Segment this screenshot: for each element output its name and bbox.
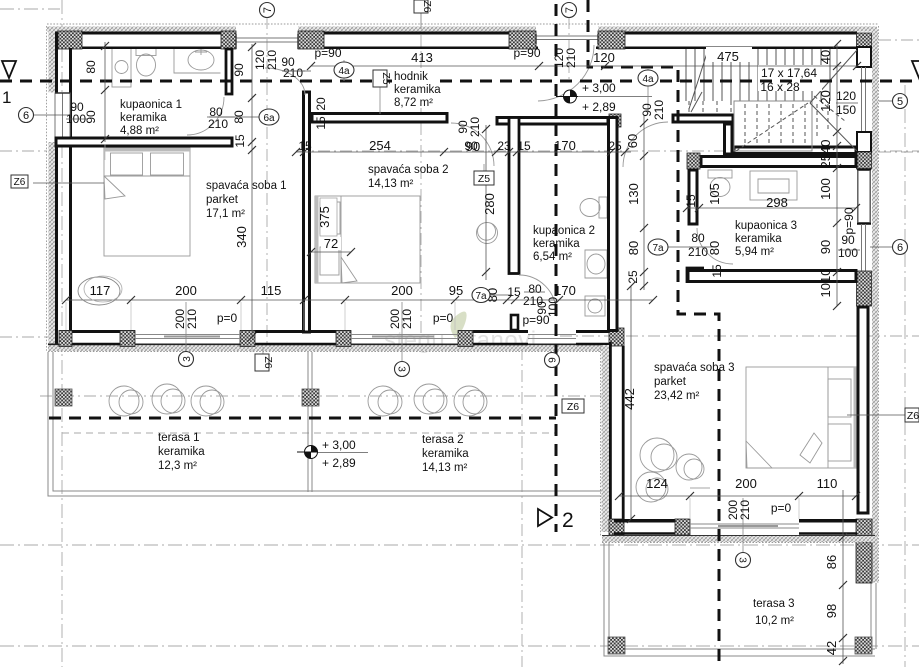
svg-text:3: 3 [182, 356, 193, 362]
hodnik/sp3 corridor wall (above kup3) [673, 115, 733, 122]
svg-text:6: 6 [23, 110, 29, 122]
terrace shrubs [109, 384, 487, 416]
svg-text:210: 210 [738, 500, 752, 520]
top wall outer black face [49, 32, 236, 35]
svg-text:15: 15 [314, 116, 328, 130]
inner faces [60, 330, 135, 333]
fixtures kupaonica 1: washer [112, 49, 131, 88]
svg-text:475: 475 [717, 49, 739, 64]
kup2 top dim line y152 [296, 151, 631, 153]
svg-text:5,94 m²: 5,94 m² [735, 246, 774, 258]
kup3 bottom wall [688, 271, 856, 282]
svg-text:kupaonica 3: kupaonica 3 [735, 220, 797, 232]
svg-text:hodnik: hodnik [394, 71, 428, 83]
svg-text:25: 25 [626, 270, 640, 284]
svg-text:keramika: keramika [422, 448, 469, 460]
kup2 left wall [509, 118, 519, 274]
witness lines [66, 144, 799, 519]
kup2 door to terrace p=90 [528, 335, 576, 339]
svg-text:80: 80 [691, 231, 705, 245]
entry door 120 opening [536, 36, 598, 40]
terasa3 chain x843 [842, 490, 844, 664]
svg-text:17,1 m²: 17,1 m² [206, 208, 245, 220]
svg-text:115: 115 [261, 283, 282, 298]
glass door sp1 (p=0 200) [135, 335, 240, 339]
svg-text:20: 20 [314, 97, 328, 111]
svg-text:6a: 6a [263, 113, 275, 124]
BOTTOM WALL (main house) [48, 328, 624, 352]
svg-text:150: 150 [836, 103, 856, 117]
glass door sp2 (p=0 200) [351, 335, 458, 339]
kup2 top wall [497, 118, 608, 125]
svg-text:90: 90 [466, 139, 480, 154]
fixtures kupaonica 2 [580, 197, 607, 316]
sp2 to kup2 door arc [519, 275, 556, 312]
svg-text:+ 3,00: + 3,00 [322, 438, 356, 452]
sp3 chain x631 [630, 286, 632, 519]
hodnik to sp3 door arc (4a) [623, 122, 668, 167]
DIMENSION TEXTS horizontal [66, 46, 858, 515]
svg-text:90: 90 [232, 63, 246, 77]
hodnik cabinet [0, 0, 1, 1]
left wall window 90/100 [55, 93, 70, 142]
MARKERS: section triangles [2, 61, 919, 532]
svg-text:4a: 4a [338, 66, 350, 77]
hodnik bottom wall [312, 114, 447, 123]
svg-text:413: 413 [411, 50, 433, 65]
watermark [384, 311, 537, 354]
DOOR ARCS [187, 45, 733, 312]
hodnik to sp2 door arc [451, 123, 494, 166]
svg-text:15: 15 [233, 134, 247, 148]
svg-text:200: 200 [391, 283, 413, 298]
fixtures kupaonica 1: sink+counter [174, 48, 221, 73]
long solid segment [858, 307, 868, 513]
svg-text:3: 3 [737, 557, 748, 563]
svg-text:98: 98 [824, 604, 839, 618]
svg-text:210: 210 [265, 50, 279, 70]
piers [59, 331, 72, 347]
main bottom dim line [66, 299, 653, 301]
door p=90 in right wall [858, 171, 870, 222]
wall stub at entry (kup1 door jamb) [226, 49, 232, 94]
furniture: bed 2 (spavaca soba 2) [315, 196, 420, 283]
svg-text:terasa 1: terasa 1 [158, 432, 200, 444]
svg-text:p=0: p=0 [217, 311, 238, 325]
kup3 left wall [689, 170, 697, 224]
svg-text:95: 95 [449, 283, 463, 298]
svg-text:spavaća soba 2: spavaća soba 2 [368, 164, 449, 176]
leader lines [33, 114, 70, 116]
glass door sp3 (p=0 200) [690, 524, 799, 528]
kup2 left wall stub at bottom [511, 315, 518, 330]
svg-text:130: 130 [626, 183, 641, 205]
svg-text:80: 80 [84, 60, 98, 74]
svg-text:+ 2,89: + 2,89 [582, 100, 616, 114]
svg-text:210: 210 [208, 117, 228, 131]
svg-text:23,42 m²: 23,42 m² [654, 390, 700, 402]
svg-text:spavaća soba 1: spavaća soba 1 [206, 180, 287, 192]
RIGHT WALL [856, 26, 879, 583]
window axis leader lines [186, 302, 743, 553]
svg-text:1010: 1010 [818, 269, 833, 298]
svg-text:3: 3 [396, 366, 407, 372]
svg-text:124: 124 [646, 476, 668, 491]
wall below stairs [734, 147, 856, 154]
svg-text:210: 210 [652, 100, 666, 120]
svg-text:80: 80 [626, 241, 641, 255]
kup3 top wall [701, 157, 856, 167]
svg-text:6: 6 [546, 357, 557, 363]
svg-text:105: 105 [707, 183, 722, 205]
svg-text:16 x 28: 16 x 28 [760, 80, 800, 94]
SP3 LEFT WALL [601, 342, 625, 537]
svg-text:p=90: p=90 [314, 46, 341, 60]
right chain x837 [836, 44, 838, 306]
svg-text:kupaonica 2: kupaonica 2 [533, 225, 595, 237]
furniture: bed 1 (spavaca soba 1) [104, 148, 190, 256]
solid/cored segments [857, 33, 872, 47]
svg-text:23: 23 [497, 139, 511, 153]
kup3 door stub corner [687, 268, 704, 283]
svg-text:210: 210 [283, 66, 303, 80]
svg-text:15: 15 [507, 285, 521, 299]
svg-text:40: 40 [818, 50, 833, 64]
svg-text:10,2 m²: 10,2 m² [755, 615, 794, 627]
svg-text:15: 15 [517, 139, 531, 153]
svg-text:80: 80 [707, 241, 722, 255]
svg-text:210: 210 [400, 309, 414, 329]
svg-text:90: 90 [84, 110, 98, 124]
svg-text:90: 90 [818, 240, 833, 254]
svg-text:4,88 m²: 4,88 m² [120, 125, 159, 137]
svg-text:parket: parket [206, 194, 239, 206]
kup1 vertical chain x105 [104, 42, 106, 142]
fixtures kupaonica 3 [708, 170, 797, 200]
kup2 right chain x644 [643, 116, 645, 290]
ROOM LABELS [120, 68, 797, 627]
terrace 1/2 divider [308, 352, 312, 492]
wall kup1 bottom [56, 138, 232, 146]
svg-text:7a: 7a [652, 243, 664, 254]
furniture: bed 3 (spavaca soba 3) [746, 367, 857, 468]
svg-text:442: 442 [622, 388, 637, 410]
svg-text:p=90: p=90 [513, 46, 540, 60]
svg-text:280: 280 [482, 193, 497, 215]
svg-text:keramika: keramika [533, 238, 580, 250]
svg-text:120: 120 [818, 90, 833, 112]
entry vertical chain x252 [251, 44, 253, 338]
terrace pillars [55, 389, 872, 654]
svg-text:17 x 17,64: 17 x 17,64 [761, 66, 817, 80]
entry window arc [265, 68, 305, 95]
svg-text:p=90: p=90 [842, 207, 856, 234]
svg-text:200: 200 [175, 283, 197, 298]
bottom outer core edges under solid parts [60, 343, 614, 345]
svg-text:12,3 m²: 12,3 m² [158, 460, 197, 472]
svg-text:+ 3,00: + 3,00 [582, 81, 616, 95]
svg-text:Z6: Z6 [14, 177, 26, 188]
svg-text:2540: 2540 [818, 140, 833, 169]
entry door arc (120 at top) [538, 45, 594, 101]
svg-text:14,13 m²: 14,13 m² [368, 178, 414, 190]
svg-text:terasa 2: terasa 2 [422, 434, 464, 446]
svg-text:86: 86 [824, 555, 839, 569]
svg-text:120: 120 [593, 50, 615, 65]
svg-text:210: 210 [564, 48, 578, 68]
svg-text:7: 7 [564, 7, 576, 13]
svg-text:80: 80 [232, 110, 246, 124]
svg-text:keramika: keramika [120, 112, 167, 124]
kup2 right wall [609, 118, 618, 331]
svg-text:170: 170 [554, 283, 576, 298]
kup3 door arc [697, 228, 733, 264]
svg-text:spavaća soba 3: spavaća soba 3 [654, 362, 735, 374]
svg-text:25: 25 [608, 139, 622, 153]
terrace 1+2 outline [48, 352, 604, 496]
top wall piers (crosshatch) [58, 31, 82, 49]
svg-text:72: 72 [324, 236, 338, 251]
svg-text:7: 7 [262, 7, 274, 13]
svg-text:Z6: Z6 [907, 410, 919, 422]
svg-text:Z5: Z5 [380, 72, 392, 84]
svg-text:340: 340 [234, 226, 249, 248]
svg-text:60: 60 [625, 134, 640, 148]
svg-text:210: 210 [185, 309, 199, 329]
svg-text:100: 100 [818, 178, 833, 200]
svg-text:15: 15 [684, 194, 698, 208]
svg-text:Z6: Z6 [262, 356, 274, 368]
svg-text:100: 100 [838, 246, 858, 260]
svg-text:375: 375 [317, 206, 332, 228]
svg-text:p=0: p=0 [771, 501, 792, 515]
svg-text:keramika: keramika [394, 84, 441, 96]
svg-text:keramika: keramika [735, 233, 782, 245]
svg-text:4a: 4a [642, 74, 654, 85]
svg-text:5: 5 [897, 96, 903, 108]
svg-text:kupaonica 1: kupaonica 1 [120, 99, 182, 111]
top wall inner faces [80, 47, 225, 50]
fixtures kupaonica 1: WC [136, 49, 156, 77]
svg-text:p=0: p=0 [433, 311, 454, 325]
svg-text:15: 15 [298, 139, 312, 153]
svg-text:6,54 m²: 6,54 m² [533, 251, 572, 263]
kup2 left chain x486 [485, 125, 487, 280]
svg-text:7a: 7a [475, 291, 487, 302]
SP3 BOTTOM WALL [602, 519, 875, 543]
svg-text:298: 298 [766, 195, 788, 210]
MARKERS: boxed Z labels [11, 0, 919, 422]
svg-text:terasa 3: terasa 3 [753, 598, 795, 610]
svg-text:Z5: Z5 [478, 173, 490, 185]
svg-text:254: 254 [369, 138, 391, 153]
svg-text:110: 110 [817, 476, 838, 491]
window 120 opening top-left [236, 38, 298, 42]
svg-text:8,72 m²: 8,72 m² [394, 97, 433, 109]
furniture: chair circle sp2 [477, 223, 498, 244]
TOP WALL: outer line, insulation, core faces [47, 24, 878, 49]
svg-text:15: 15 [710, 264, 724, 278]
svg-text:1: 1 [2, 88, 11, 107]
top dim line [311, 65, 857, 67]
window 90/100 [862, 224, 866, 271]
ellipse sketch around 117 [78, 277, 120, 305]
kup3 dim line y208 [687, 207, 856, 209]
sp2 72 dim [311, 251, 351, 253]
divider wall sp1/sp2 [304, 92, 310, 332]
svg-text:6: 6 [897, 242, 903, 254]
svg-text:Z6: Z6 [421, 0, 433, 12]
svg-text:14,13 m²: 14,13 m² [422, 462, 468, 474]
svg-text:210: 210 [468, 117, 482, 137]
svg-text:parket: parket [654, 376, 687, 388]
svg-text:120: 120 [836, 89, 856, 103]
MARKERS: level symbols [297, 90, 578, 459]
kup1 door arc [187, 97, 224, 135]
svg-text:117: 117 [90, 283, 111, 298]
svg-text:200: 200 [735, 476, 757, 491]
svg-text:170: 170 [554, 138, 576, 153]
svg-text:2: 2 [562, 509, 574, 532]
furniture: table+stools sp3 [636, 438, 704, 502]
DIMENSION TEXTS rotated [84, 48, 856, 656]
sp3 bottom dim line [619, 495, 856, 497]
STAIRS [686, 49, 857, 151]
svg-text:keramika: keramika [158, 446, 205, 458]
svg-text:Z6: Z6 [567, 401, 579, 413]
svg-text:+ 2,89: + 2,89 [322, 456, 356, 470]
terrace 3 outline [604, 543, 876, 656]
svg-text:42: 42 [824, 641, 839, 655]
LEFT WALL [47, 26, 73, 352]
svg-text:100: 100 [546, 297, 560, 317]
